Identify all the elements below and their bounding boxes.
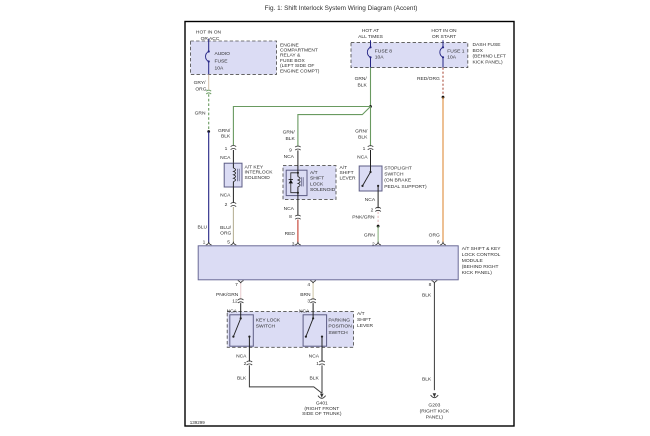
switch blade: [363, 172, 371, 186]
svg-text:KICK PANEL): KICK PANEL): [473, 60, 503, 66]
wire GRN/BLK from fuse 8: [370, 68, 372, 107]
fuse 1 wire stub: [442, 40, 444, 47]
key lock switch box: [230, 315, 254, 346]
svg-text:SHIFT: SHIFT: [340, 170, 354, 176]
svg-text:NCA: NCA: [309, 354, 320, 360]
svg-text:BOX: BOX: [473, 48, 484, 54]
svg-text:6: 6: [437, 240, 440, 246]
ground G401 symbol: [320, 394, 324, 398]
connector (in-line female): [206, 90, 211, 94]
terminal flare pin 4: [310, 281, 316, 284]
svg-text:SWITCH: SWITCH: [328, 330, 348, 336]
wire PNK/GRN (dashed): [377, 212, 379, 226]
label A/T SHIFT LOCK SOLENOID: [310, 170, 336, 193]
connector pair: [319, 361, 325, 365]
terminal flare pin 7: [238, 281, 244, 284]
svg-text:4: 4: [307, 282, 310, 288]
svg-text:A/T: A/T: [357, 311, 365, 317]
svg-text:HOT IN ON: HOT IN ON: [431, 28, 457, 34]
fuse box label: ENGINE COMPARTMENT RELAY & FUSE BOX: [280, 42, 320, 74]
label HOT IN ON OR ACC: [196, 30, 222, 42]
svg-text:STOPLIGHT: STOPLIGHT: [384, 166, 412, 172]
wire RED/ORG (dashed): [442, 68, 444, 98]
label A/T SHIFT LEVER: [357, 311, 374, 329]
wire into stoplight switch: [370, 150, 372, 172]
svg-text:SOLENOID: SOLENOID: [310, 187, 336, 193]
label KEY LOCK SWITCH: [256, 317, 281, 329]
svg-text:BLK: BLK: [221, 133, 231, 139]
wire branch to shift lock solenoid: [298, 107, 371, 147]
splice node: [377, 225, 380, 228]
svg-text:BLK: BLK: [422, 376, 432, 382]
switch blade (key lock): [233, 318, 240, 336]
fuse FUSE 8: [367, 47, 370, 57]
svg-text:POSITION: POSITION: [328, 324, 352, 330]
svg-text:GRN/: GRN/: [355, 128, 368, 134]
svg-text:NCA: NCA: [236, 354, 247, 360]
svg-text:DASH FUSE: DASH FUSE: [473, 42, 502, 48]
label G401 (RIGHT FRONT SIDE OF TRUNK): [302, 401, 342, 417]
wire BLK right: [433, 283, 435, 390]
column 2: label GRN/BLK: [218, 128, 231, 140]
coil (shift lock solenoid): [297, 173, 299, 177]
A/T shift & key lock control module: [198, 246, 458, 280]
svg-text:A/T KEY: A/T KEY: [245, 165, 264, 171]
connector pair: [368, 146, 374, 150]
svg-text:LEVER: LEVER: [340, 175, 357, 181]
svg-text:GRY/: GRY/: [194, 80, 207, 86]
svg-text:BRN: BRN: [300, 292, 311, 298]
svg-text:5: 5: [227, 240, 230, 246]
column 3: label GRN/BLK: [283, 130, 296, 142]
svg-text:PNK/GRN: PNK/GRN: [216, 292, 239, 298]
node: [297, 192, 299, 194]
wire continues to stoplight switch: [370, 107, 372, 147]
wire below parking position switch: [321, 337, 323, 362]
fuse FUSE 1: [440, 47, 443, 57]
svg-text:SIDE OF TRUNK): SIDE OF TRUNK): [302, 411, 342, 417]
wire below fuse 8: [370, 57, 372, 67]
svg-text:ALL TIMES: ALL TIMES: [358, 34, 383, 40]
svg-text:HOT IN ON: HOT IN ON: [196, 30, 222, 36]
svg-text:A/T SHIFT & KEY: A/T SHIFT & KEY: [462, 246, 501, 252]
svg-text:BLK: BLK: [358, 135, 368, 141]
label HOT AT ALL TIMES: [358, 28, 383, 40]
parking position switch box: [303, 315, 327, 346]
svg-text:KICK PANEL): KICK PANEL): [462, 270, 492, 276]
wire GRY/ORG: [208, 74, 210, 89]
svg-text:BLU: BLU: [197, 225, 207, 231]
wire BLU: [208, 132, 210, 244]
connector pair: [295, 215, 301, 219]
node: [297, 172, 299, 174]
svg-text:BLU/: BLU/: [220, 225, 232, 231]
terminal flare pin 5: [231, 242, 237, 245]
svg-text:2: 2: [371, 207, 374, 213]
svg-text:1: 1: [203, 240, 206, 246]
svg-text:FUSE 1: FUSE 1: [447, 48, 464, 54]
label BLU/ORG: [220, 225, 232, 237]
svg-text:(ON BRAKE: (ON BRAKE: [384, 178, 412, 184]
connector pair: [231, 203, 237, 207]
wire BLU/ORG: [232, 207, 234, 243]
wire BLK (key lock to ground run): [249, 365, 321, 393]
wire below audio fuse inside box: [208, 62, 210, 75]
svg-text:BLK: BLK: [237, 375, 247, 381]
connector pair: [375, 207, 381, 211]
engine compartment fuse box (dashed): [191, 41, 277, 74]
switch blade (parking position): [306, 318, 313, 336]
svg-text:PNK/GRN: PNK/GRN: [352, 215, 375, 221]
svg-text:SHIFT: SHIFT: [310, 176, 324, 182]
svg-text:9: 9: [289, 148, 292, 154]
label G203 (RIGHT KICK PANEL): [420, 403, 450, 421]
wire below shift lock solenoid: [297, 193, 299, 216]
connector pair: [231, 146, 237, 150]
label A/T SHIFT & KEY LOCK CONTROL MODULE (BEHIND RIGHT KICK PANEL): [462, 246, 501, 276]
svg-text:GRN: GRN: [195, 111, 206, 117]
svg-text:RELAY &: RELAY &: [280, 53, 301, 59]
svg-text:8: 8: [429, 282, 432, 288]
stoplight switch box: [359, 166, 382, 191]
wire GRN: [377, 226, 379, 243]
svg-text:(RIGHT KICK: (RIGHT KICK: [420, 409, 450, 415]
svg-text:NCA: NCA: [220, 193, 231, 199]
svg-text:139299: 139299: [190, 420, 206, 425]
wire into key lock switch: [240, 303, 242, 318]
wire below fuse 1: [442, 57, 444, 67]
terminal flare pin 8: [432, 281, 438, 284]
svg-text:BLK: BLK: [358, 82, 368, 88]
svg-text:ENGINE: ENGINE: [280, 42, 299, 48]
svg-text:ENGINE COMPT): ENGINE COMPT): [280, 68, 320, 74]
svg-text:ORG: ORG: [220, 231, 231, 237]
terminal flare pin 3: [295, 242, 301, 245]
wire GRN (dashed): [208, 94, 210, 131]
diode branch: [291, 173, 298, 193]
label STOPLIGHT SWITCH (ON BRAKE PEDAL SUPPORT): [384, 166, 427, 190]
svg-text:RED: RED: [285, 231, 296, 237]
column 4: label GRN/BLK: [355, 128, 368, 140]
svg-text:SOLENOID: SOLENOID: [245, 175, 271, 181]
svg-text:2: 2: [244, 361, 247, 367]
svg-text:LOCK CONTROL: LOCK CONTROL: [462, 252, 501, 258]
connector pair: [238, 299, 244, 303]
svg-text:FUSE: FUSE: [215, 58, 229, 64]
svg-text:GRN: GRN: [364, 232, 375, 238]
svg-text:BLK: BLK: [310, 375, 320, 381]
border frame: [185, 22, 514, 427]
svg-text:FUSE 8: FUSE 8: [375, 48, 392, 54]
svg-text:3: 3: [307, 299, 310, 305]
svg-text:AUDIO: AUDIO: [215, 51, 231, 57]
svg-text:12: 12: [232, 299, 238, 305]
shift lock solenoid inner box: [286, 170, 307, 195]
svg-text:SHIFT: SHIFT: [357, 317, 371, 323]
terminal flare pin 6: [440, 242, 446, 245]
value label AUDIO FUSE 10A: [215, 51, 231, 71]
wire below key lock switch: [248, 337, 250, 362]
label DASH FUSE BOX (BEHIND LEFT KICK PANEL): [473, 42, 506, 65]
wire RED: [297, 220, 299, 243]
A/T key interlock solenoid box: [224, 163, 242, 187]
splice node: [207, 130, 210, 133]
svg-text:BLK: BLK: [422, 293, 432, 299]
connector pair: [247, 361, 253, 365]
svg-text:GRN/: GRN/: [218, 128, 231, 134]
label A/T SHIFT LEVER: [340, 165, 357, 181]
label A/T KEY INTERLOCK SOLENOID: [245, 165, 274, 181]
A/T shift lever dashed box (solenoid): [283, 166, 336, 200]
svg-text:NCA: NCA: [357, 155, 368, 161]
wire into shift lock solenoid: [297, 150, 299, 172]
fuse F audio: [206, 52, 209, 62]
wire BLK (parking switch to ground): [321, 365, 323, 393]
svg-text:10A: 10A: [447, 55, 456, 61]
wire into parking position switch: [312, 303, 314, 318]
wire PNK: [240, 283, 242, 299]
svg-text:NCA: NCA: [299, 308, 310, 314]
coil (key interlock solenoid): [232, 163, 234, 168]
splice node: [442, 96, 445, 99]
svg-text:G401: G401: [316, 401, 328, 407]
svg-text:Fig. 1: Shift Interlock System: Fig. 1: Shift Interlock System Wiring Di…: [265, 5, 418, 12]
svg-text:ORG: ORG: [429, 232, 440, 238]
svg-text:8: 8: [289, 214, 292, 220]
svg-text:1: 1: [316, 361, 319, 367]
wire below solenoid: [232, 187, 234, 203]
wire into solenoid: [232, 150, 234, 163]
label GRN/BLK: [355, 76, 368, 88]
junction node (GRN/BLK split): [369, 105, 372, 108]
svg-text:(LEFT SIDE OF: (LEFT SIDE OF: [280, 63, 314, 69]
svg-text:PEDAL SUPPORT): PEDAL SUPPORT): [384, 184, 427, 190]
svg-text:1: 1: [363, 146, 366, 152]
fuse 8 wire stub: [370, 40, 372, 47]
svg-text:2: 2: [225, 202, 228, 208]
terminal flare pin 1: [206, 242, 212, 245]
svg-text:10A: 10A: [375, 55, 384, 61]
svg-text:1: 1: [225, 146, 228, 152]
label HOT IN ON OR START: [431, 28, 457, 40]
svg-text:NCA: NCA: [220, 155, 231, 161]
svg-text:(RIGHT FRONT: (RIGHT FRONT: [304, 406, 339, 412]
svg-text:GRN/: GRN/: [283, 130, 296, 136]
svg-text:HOT AT: HOT AT: [362, 28, 379, 34]
svg-text:NCA: NCA: [365, 197, 376, 203]
wire BRN: [312, 283, 314, 299]
terminal flare pin 2: [375, 242, 381, 245]
wire ORG: [442, 97, 444, 243]
A/T shift lever dashed box (switches): [227, 312, 353, 348]
svg-text:NCA: NCA: [284, 154, 295, 160]
svg-text:A/T: A/T: [340, 165, 348, 171]
ground G203 symbol: [433, 393, 437, 397]
svg-text:KEY LOCK: KEY LOCK: [256, 317, 281, 323]
value label FUSE 8 10A: [375, 48, 392, 60]
svg-text:NCA: NCA: [227, 308, 238, 314]
svg-text:RED/ORG: RED/ORG: [417, 76, 440, 82]
wire below stoplight switch: [377, 186, 379, 208]
svg-text:LOCK: LOCK: [310, 181, 324, 187]
svg-text:(BEHIND LEFT: (BEHIND LEFT: [473, 54, 506, 60]
svg-text:G203: G203: [428, 403, 440, 409]
connector pair: [295, 146, 301, 150]
svg-text:7: 7: [235, 282, 238, 288]
svg-text:PARKING: PARKING: [328, 317, 350, 323]
svg-text:SWITCH: SWITCH: [384, 172, 404, 178]
svg-text:FUSE BOX: FUSE BOX: [280, 58, 305, 64]
svg-text:A/T: A/T: [310, 170, 318, 176]
svg-text:LEVER: LEVER: [357, 323, 374, 329]
svg-text:INTERLOCK: INTERLOCK: [245, 170, 274, 176]
svg-text:10A: 10A: [215, 65, 224, 71]
svg-text:ORG: ORG: [195, 86, 206, 92]
connector pair: [310, 299, 316, 303]
wire stub above audio fuse: [208, 39, 210, 52]
diode: [289, 180, 293, 184]
svg-text:NCA: NCA: [284, 206, 295, 212]
svg-text:(BEHIND RIGHT: (BEHIND RIGHT: [462, 264, 499, 270]
svg-text:BLK: BLK: [286, 136, 296, 142]
svg-text:GRN/: GRN/: [355, 76, 368, 82]
svg-text:OR START: OR START: [432, 34, 456, 40]
svg-text:MODULE: MODULE: [462, 258, 484, 264]
label GRY/ORG: [194, 80, 207, 92]
dash fuse box (dashed): [351, 43, 468, 68]
svg-text:SWITCH: SWITCH: [256, 324, 276, 330]
svg-text:COMPARTMENT: COMPARTMENT: [280, 48, 318, 54]
label PARKING POSITION SWITCH: [328, 317, 352, 335]
wire branch to key interlock solenoid: [233, 107, 370, 146]
value label FUSE 1 10A: [447, 48, 464, 60]
svg-text:PANEL): PANEL): [426, 414, 444, 420]
